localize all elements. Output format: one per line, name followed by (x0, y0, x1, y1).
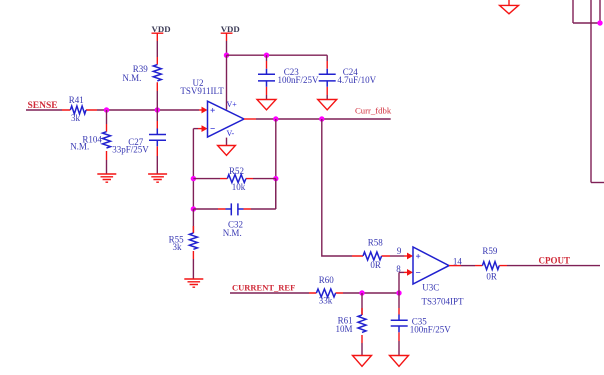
resistor R58 (352, 238, 390, 271)
svg-text:R52: R52 (229, 166, 244, 176)
wire VDD rail horizontal (227, 54, 328, 56)
node junction R52 right (273, 176, 278, 181)
svg-text:3k: 3k (71, 113, 81, 123)
wire top right vertical B (590, 0, 592, 183)
resistor R55 (169, 226, 198, 259)
wire junction down to R61 (361, 293, 363, 315)
svg-text:TSV911ILT: TSV911ILT (180, 86, 224, 96)
wire output to R59 (461, 265, 475, 267)
capacitor C35 (391, 308, 452, 341)
ground (triangle) below op-amp (218, 146, 236, 156)
wire CURRENT_REF to R60 (230, 292, 309, 294)
wire top right horizontal (573, 22, 601, 24)
wire C24 to ground (326, 95, 328, 99)
ground (triangle) below C24 (318, 100, 337, 110)
wire top right stub to edge (591, 182, 604, 184)
svg-text:R59: R59 (482, 246, 498, 256)
node junction V+ rail (224, 53, 229, 58)
svg-text:3k: 3k (173, 242, 183, 252)
op-amp U2 output pin (244, 118, 256, 120)
node junction to comparator (319, 116, 324, 121)
node junction C32 left (191, 206, 196, 211)
wire output to Curr_fdbk (256, 118, 391, 120)
wire R41 to opamp (97, 109, 199, 111)
svg-text:Curr_fdbk: Curr_fdbk (355, 106, 392, 116)
resistor R52 (193, 166, 275, 192)
resistor R60 (309, 275, 343, 306)
wire - input down to feedback (192, 129, 194, 209)
svg-text:V-: V- (227, 129, 235, 138)
svg-text:100nF/25V: 100nF/25V (410, 324, 452, 334)
ground (triangle) top right (500, 0, 519, 14)
svg-text:R58: R58 (368, 238, 384, 248)
wire junction to R104 (106, 110, 108, 124)
wire comparator feed vertical (322, 119, 352, 256)
op-amp U2 pin - arrow (193, 125, 207, 132)
svg-text:R41: R41 (69, 95, 84, 105)
svg-text:14: 14 (453, 256, 463, 266)
wire V+ rail down to op-amp (226, 55, 228, 109)
ground (triangle) below R61 (353, 356, 372, 367)
svg-text:33pF/25V: 33pF/25V (112, 144, 149, 154)
resistor R41 (62, 95, 97, 123)
resistor R104 (70, 124, 110, 160)
resistor R39 (122, 57, 161, 91)
resistor R61 (336, 308, 367, 343)
ground (earth) below C27 (148, 174, 167, 182)
svg-text:100nF/25V: 100nF/25V (278, 75, 320, 85)
comparator output pin (449, 265, 461, 267)
comparator U3C pin + arrow (404, 253, 413, 260)
svg-text:CURRENT_REF: CURRENT_REF (232, 283, 295, 293)
wire pin8 vertical (398, 272, 400, 293)
svg-text:9: 9 (397, 246, 402, 256)
power symbol VDD (left) (152, 24, 171, 41)
wire junction to C27 (156, 110, 158, 121)
svg-text:N.M.: N.M. (223, 228, 242, 238)
capacitor C24 (319, 61, 377, 95)
power symbol VDD (right) (221, 24, 240, 41)
op-amp U2 (180, 78, 244, 138)
wire R60 to junctions (343, 292, 399, 294)
wire SENSE to R41 (26, 109, 62, 111)
svg-text:0R: 0R (486, 272, 497, 282)
ground (triangle) below C23 (257, 100, 276, 110)
svg-text:4.7uF/10V: 4.7uF/10V (337, 75, 376, 85)
node junction C35 (396, 290, 401, 295)
wire V- to ground (226, 138, 228, 145)
wire C35 to ground (398, 341, 400, 355)
svg-text:R60: R60 (319, 275, 335, 285)
wire VDD to R39 (156, 41, 158, 57)
comparator U3C (413, 247, 464, 307)
svg-text:N.M.: N.M. (122, 73, 141, 83)
ground (earth) below R104 (97, 174, 116, 182)
wire R39 to junction (156, 91, 158, 110)
wire R59 to CPOUT (507, 265, 600, 267)
svg-text:33k: 33k (319, 296, 333, 306)
wire R61 to ground (361, 343, 363, 355)
ground (earth) below R55 (184, 279, 203, 287)
wire R104 to ground (106, 160, 108, 174)
ground (triangle) below C35 (390, 356, 409, 367)
node junction R104 (104, 107, 109, 112)
svg-text:10M: 10M (336, 324, 353, 334)
wire VDD2 down to rail junction (226, 41, 228, 55)
svg-text:10k: 10k (232, 182, 246, 192)
svg-text:CPOUT: CPOUT (539, 256, 571, 266)
wire C27 to ground (156, 156, 158, 174)
node junction R52 left (191, 176, 196, 181)
svg-text:U3C: U3C (422, 283, 439, 293)
wire C23 tap down (266, 55, 268, 61)
svg-text:0R: 0R (370, 260, 381, 270)
svg-text:TS3704IPT: TS3704IPT (422, 297, 465, 307)
wire R55 to ground (192, 259, 194, 279)
resistor R59 (475, 246, 507, 282)
capacitor C23 (258, 61, 319, 95)
wire top right vertical A (572, 0, 574, 23)
op-amp U2 pin + arrow (199, 107, 208, 114)
wire C35 column (398, 293, 400, 308)
wire junction down to R55 (192, 209, 194, 233)
wire C32 right up (275, 179, 277, 209)
wire feedback right vertical (275, 119, 277, 209)
capacitor C32 (193, 203, 275, 238)
wire top right vertical C (599, 0, 601, 23)
wire C24 column (326, 55, 328, 61)
svg-text:N.M.: N.M. (70, 142, 89, 152)
wire C23 to ground (266, 95, 268, 99)
wire R58 to pin9 (390, 255, 404, 257)
svg-text:V+: V+ (227, 100, 238, 109)
node junction R61 (359, 290, 364, 295)
node junction R39/C27 (155, 107, 160, 112)
node junction feedback (273, 116, 278, 121)
node junction C23 tap (264, 53, 269, 58)
capacitor C27 (112, 121, 166, 156)
comparator U3C pin - arrow (399, 269, 413, 276)
node junction top right (597, 20, 602, 25)
